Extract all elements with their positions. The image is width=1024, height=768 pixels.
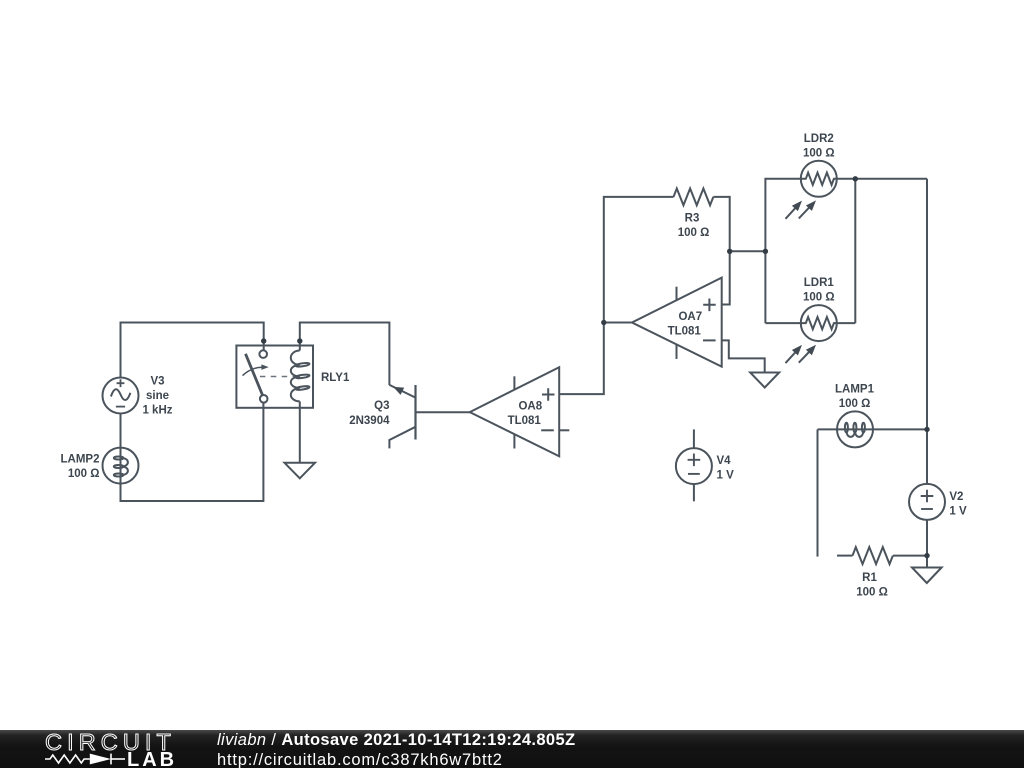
- svg-text:TL081: TL081: [668, 325, 702, 337]
- svg-text:LDR2: LDR2: [804, 133, 834, 145]
- svg-text:1 V: 1 V: [949, 506, 967, 518]
- svg-text:sine: sine: [146, 390, 169, 402]
- svg-text:100 Ω: 100 Ω: [803, 148, 835, 160]
- svg-text:R1: R1: [862, 572, 877, 584]
- svg-text:TL081: TL081: [508, 415, 542, 427]
- svg-text:100 Ω: 100 Ω: [68, 468, 100, 480]
- svg-text:OA7: OA7: [678, 311, 702, 323]
- svg-text:2N3904: 2N3904: [349, 415, 390, 427]
- svg-text:100 Ω: 100 Ω: [839, 398, 871, 410]
- svg-text:OA8: OA8: [518, 400, 542, 412]
- svg-text:LAMP1: LAMP1: [835, 384, 875, 396]
- svg-text:100 Ω: 100 Ω: [856, 587, 888, 599]
- svg-text:V2: V2: [949, 491, 963, 503]
- svg-text:Q3: Q3: [374, 400, 389, 412]
- svg-text:1 kHz: 1 kHz: [142, 405, 172, 417]
- svg-text:V4: V4: [717, 455, 732, 467]
- svg-text:R3: R3: [685, 213, 700, 225]
- svg-text:V3: V3: [150, 376, 164, 388]
- svg-text:RLY1: RLY1: [321, 372, 350, 384]
- svg-text:1 V: 1 V: [717, 470, 735, 482]
- svg-text:100 Ω: 100 Ω: [803, 292, 835, 304]
- svg-text:LAMP2: LAMP2: [61, 454, 100, 466]
- svg-text:100 Ω: 100 Ω: [678, 227, 710, 239]
- svg-text:LDR1: LDR1: [804, 277, 835, 289]
